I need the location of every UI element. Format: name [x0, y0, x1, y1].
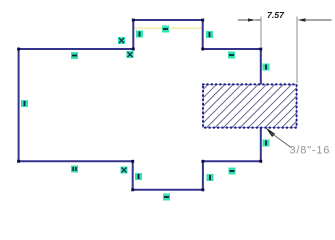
section rectangle: dotted border [203, 84, 297, 127]
dimension 7.57: extension line right [296, 17, 298, 84]
sketch line: left edge (L-A) [18, 49, 20, 161]
sketch line: bottom tab left side (J-K) [132, 161, 134, 190]
sketch line: bottom tab right side (H-I) [202, 161, 204, 190]
coincident icon X (below-left of bottom tab corner) [121, 167, 128, 174]
constraint icon: vertical (right edge upper) [263, 64, 270, 71]
vertex point K [131, 160, 134, 163]
sketch line: right edge (F-G) [260, 49, 262, 161]
svg-text:3/8"-16: 3/8"-16 [290, 145, 331, 157]
vertex point L [17, 160, 20, 163]
constraint icon: horizontal (tab top edge) [162, 26, 169, 33]
coincident icon X (below top tab corner) [127, 51, 134, 58]
section rectangle: cross-hatch fill [203, 84, 297, 127]
dimension 7.57: dim line right tail [305, 19, 332, 21]
leader arrow to section [266, 127, 276, 137]
constraint icon: vertical (left edge) [21, 100, 28, 107]
constraint icon: horizontal (right top edge) [228, 52, 235, 59]
sketch line: top tab top edge (C-D) [133, 19, 202, 21]
leader line [271, 133, 292, 148]
sketch line: top edge left (A-B) [19, 48, 134, 50]
constraint icon: parallel (bottom left edge) [71, 166, 78, 173]
coincident icon X (above-left of top tab corner) [118, 37, 125, 44]
constraint icon: horizontal (bottom tab edge) [163, 194, 170, 201]
constraint icon: horizontal (left top edge) [71, 52, 78, 59]
constraint icon: horizontal (right bottom edge) [229, 168, 236, 175]
sketch line: bottom edge right (G-H) [203, 160, 261, 162]
vertex point A [17, 48, 20, 51]
vertex point I [201, 188, 204, 191]
dimension 7.57: dim line left tail [238, 19, 249, 21]
section rectangle: white underlay [203, 84, 297, 127]
svg-text:7.57: 7.57 [267, 10, 285, 20]
constraint icon: vertical (bottom tab right) [207, 174, 214, 181]
vertex point B [132, 48, 135, 51]
constraint icon: vertical (bottom tab left) [135, 173, 142, 180]
sketch line: top tab right side (D-E) [202, 20, 204, 49]
sketch line: top tab left side (B-C) [132, 20, 134, 49]
dimension 7.57: right arrow [298, 18, 306, 21]
dimension 7.57: extension line left [260, 17, 262, 47]
constraint icon: vertical (right edge lower) [263, 140, 270, 147]
vertex point G [259, 160, 262, 163]
vertex point J [131, 188, 134, 191]
sketch line: top edge right (E-F) [203, 48, 261, 50]
vertex point D [201, 19, 204, 22]
constraint icon: vertical (top tab right) [206, 31, 213, 38]
constraint icon: vertical (top tab left) [136, 31, 143, 38]
vertex point F [259, 48, 262, 51]
vertex point E [201, 48, 204, 51]
dimension 7.57: left arrow [248, 18, 256, 21]
ghost line (previous position, pale yellow) [133, 27, 202, 29]
sketch line: bottom edge left (K-L) [19, 160, 133, 162]
vertex point H [201, 160, 204, 163]
sketch line: bottom tab bottom edge (I-J) [133, 189, 203, 191]
vertex point C [132, 19, 135, 22]
